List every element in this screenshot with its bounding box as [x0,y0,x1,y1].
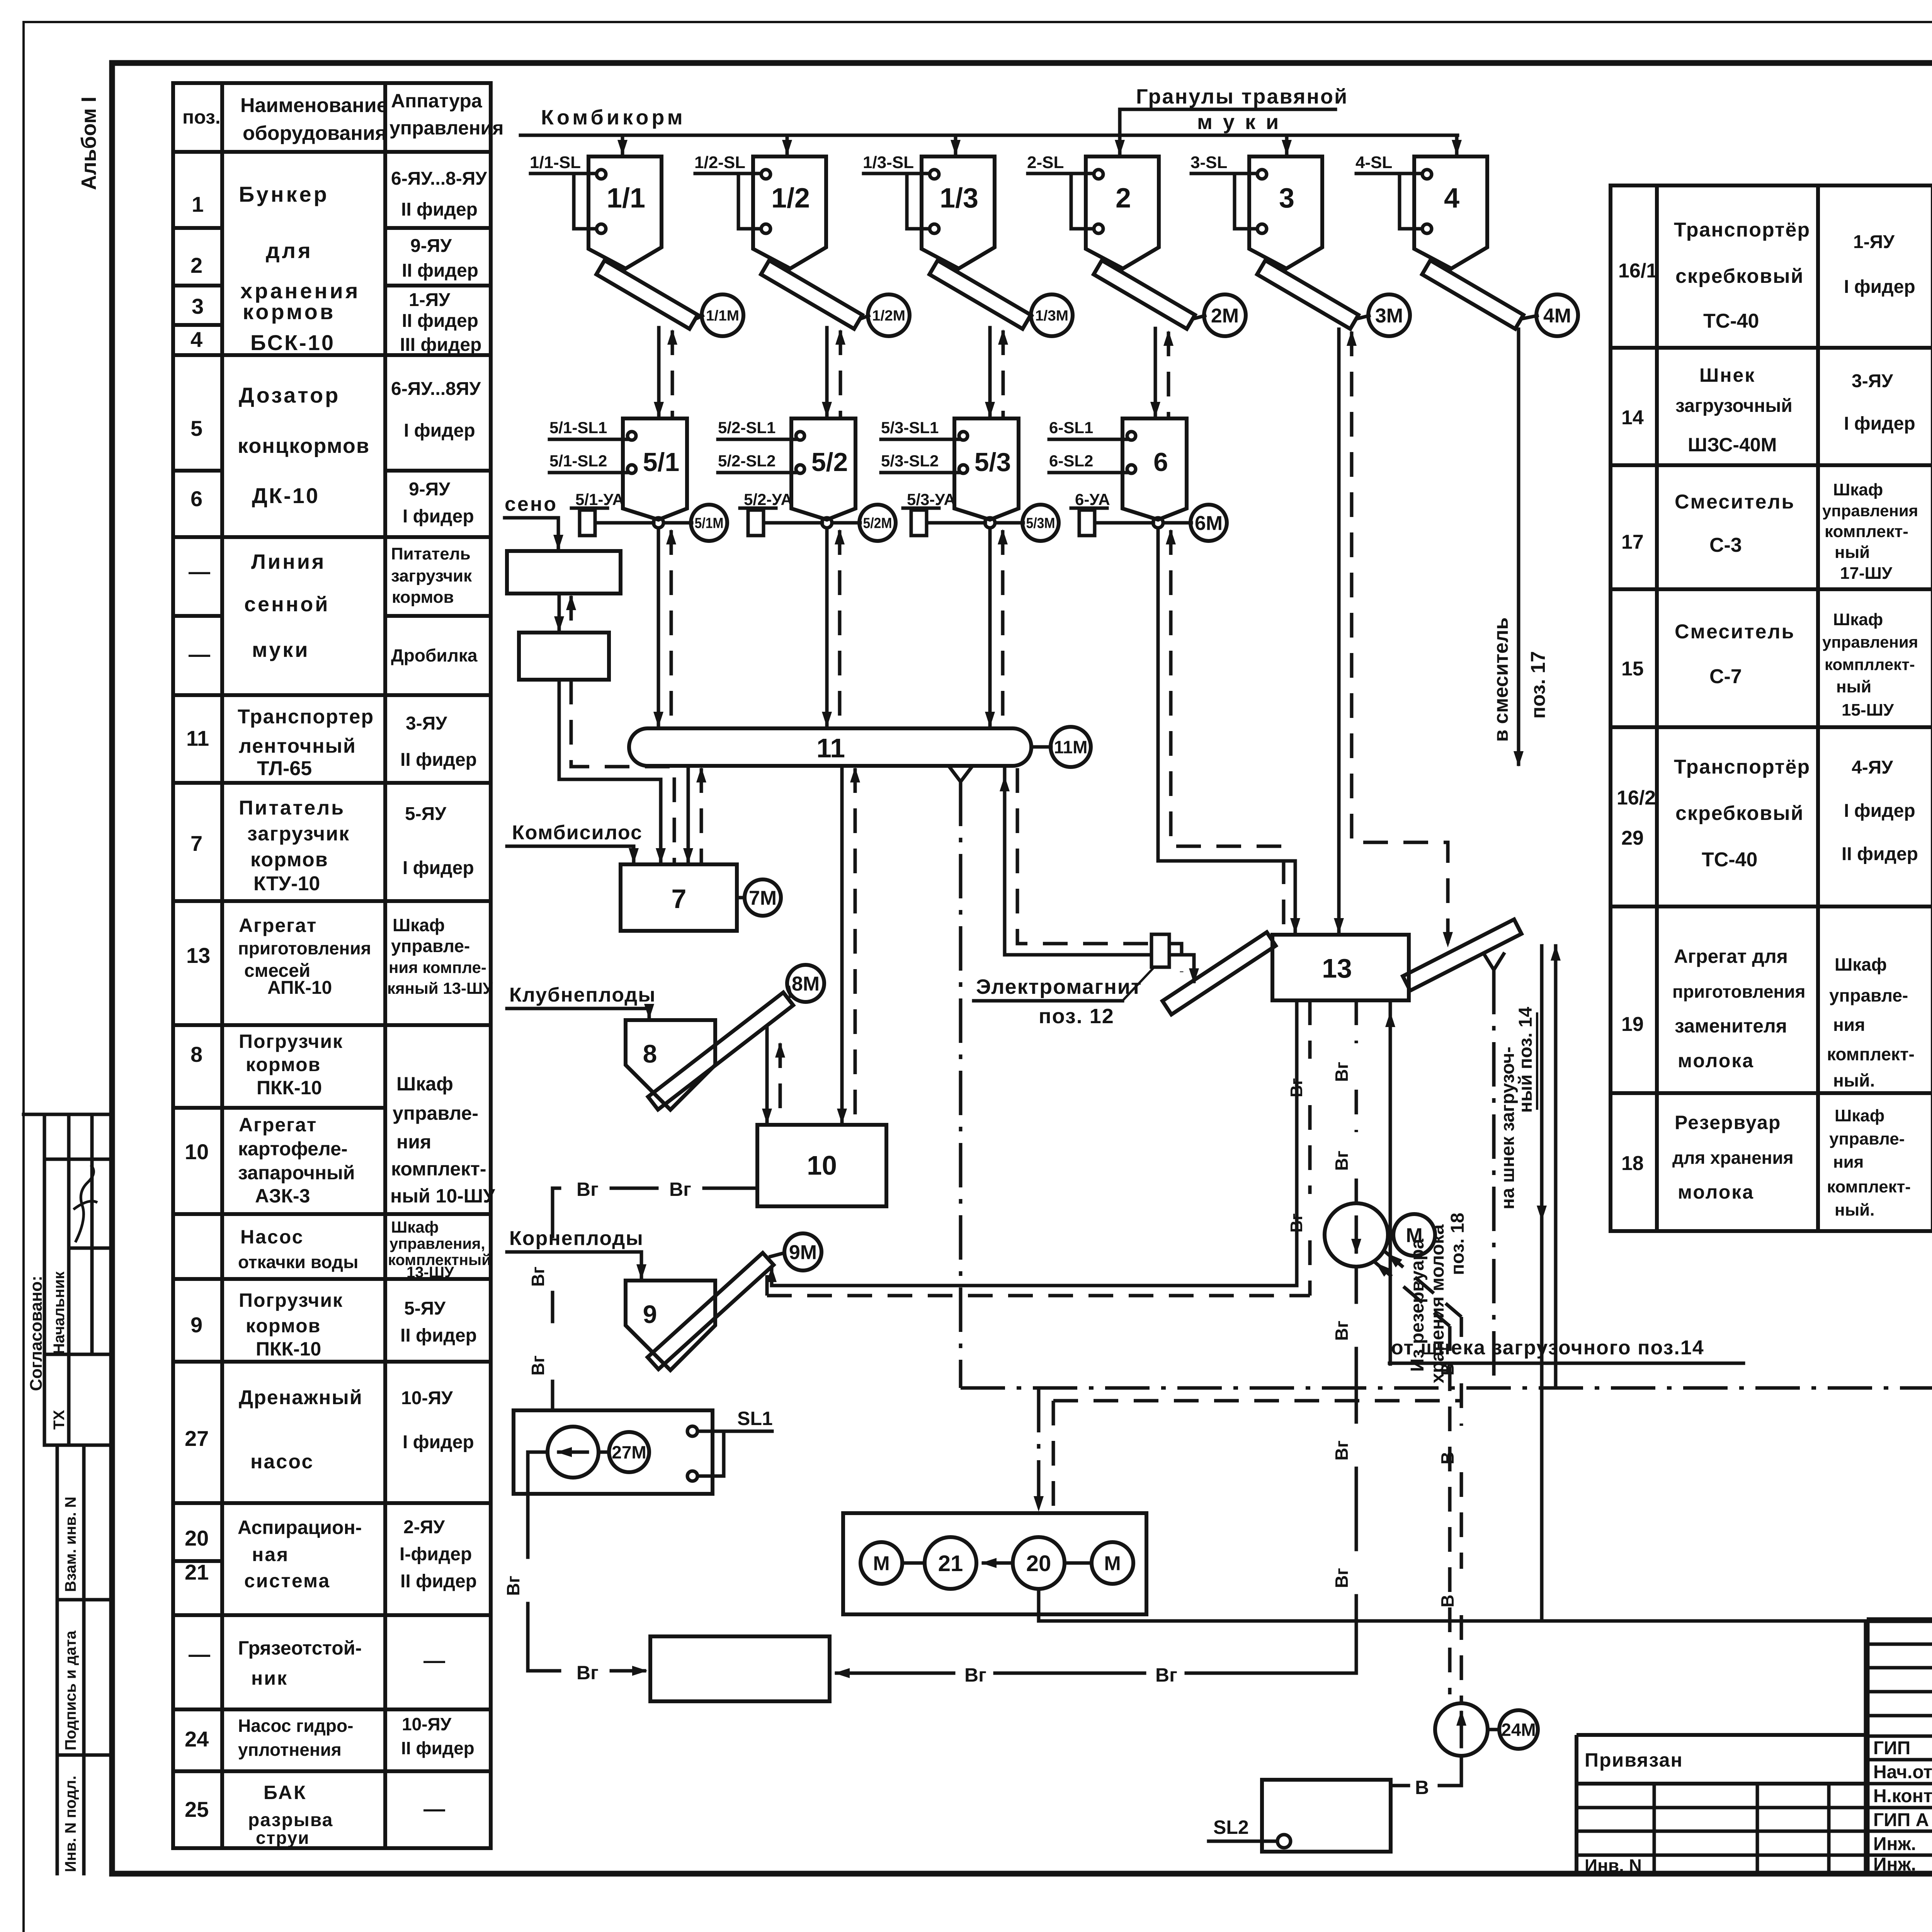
svg-text:5/1-SL1: 5/1-SL1 [549,418,607,437]
strip signature [73,1165,97,1242]
svg-text:Транспортёр: Транспортёр [1674,756,1810,778]
svg-text:5-ЯУ: 5-ЯУ [405,804,447,824]
svg-text:в смеситель: в смеситель [1490,617,1512,742]
svg-text:молока: молока [1678,1181,1754,1203]
svg-text:29: 29 [1621,827,1644,849]
svg-text:В: В [1437,1595,1458,1607]
svg-text:управления: управления [389,117,503,139]
АПК-13 bottom Вг dashed to pump [1355,1000,1358,1043]
svg-text:5/3: 5/3 [975,447,1011,477]
svg-text:11: 11 [186,726,209,750]
hopper 1/3 level sensors 1/3-SL [930,170,939,179]
motor 5/2M [832,521,860,525]
svg-text:14: 14 [1621,406,1644,429]
svg-text:комплект-: комплект- [1827,1044,1915,1064]
pump 27 left output [528,1451,548,1454]
svg-text:I фидер: I фидер [403,506,474,527]
СБ tank box SL2 [1262,1780,1391,1852]
svg-text:В: В [1415,1777,1429,1798]
hopper 1/2 bin [753,156,826,269]
hopper 4 level sensors 4-SL [1422,170,1432,179]
hopper 2 discharge conveyor [1094,260,1195,329]
svg-text:10-ЯУ: 10-ЯУ [402,1714,452,1734]
hopper 3 level sensors 3-SL [1257,170,1267,179]
flow line doser 6 to АПК-13 [1158,528,1295,932]
aspiration output line [1039,1589,1932,1621]
svg-text:25: 25 [185,1797,209,1821]
svg-text:17-ШУ: 17-ШУ [1840,564,1893,583]
doser 5/1 pivot [653,518,663,528]
svg-text:С-3: С-3 [1709,534,1742,556]
svg-text:15-ШУ: 15-ШУ [1842,701,1894,719]
svg-text:откачки воды: откачки воды [238,1252,358,1272]
return line hopper 3 dashed [1352,332,1448,946]
aspiration connectors [902,1561,925,1565]
svg-text:Шкаф: Шкаф [1835,1106,1884,1125]
svg-text:ГИП: ГИП [1873,1738,1910,1759]
svg-text:4: 4 [1444,183,1459,214]
svg-text:скребковый: скребковый [1675,265,1804,287]
hay feeder to crusher lines [558,594,561,630]
svg-text:Вг: Вг [964,1664,986,1686]
electromagnet 12 [1151,934,1169,967]
svg-text:Дренажный: Дренажный [239,1386,363,1409]
svg-text:5-ЯУ: 5-ЯУ [404,1298,446,1319]
equipment table header [173,150,491,154]
svg-text:Взам. инв. N: Взам. инв. N [62,1497,79,1592]
svg-text:3-ЯУ: 3-ЯУ [406,713,447,734]
svg-text:II фидер: II фидер [402,311,478,331]
flow lines doser 5/3 to conveyor 11 [988,528,992,726]
svg-text:16/1: 16/1 [1618,260,1657,282]
svg-text:Погрузчик: Погрузчик [239,1031,343,1052]
svg-text:III фидер: III фидер [400,335,481,355]
sump left feed [528,1669,560,1673]
svg-text:кормов: кормов [246,1315,321,1337]
svg-text:24: 24 [185,1727,209,1751]
svg-text:сено: сено [505,493,558,515]
svg-text:1/1-SL: 1/1-SL [530,153,581,172]
svg-text:С-7: С-7 [1709,665,1742,688]
svg-text:компллект-: компллект- [1825,655,1915,673]
motor 5/1M [663,521,692,525]
svg-text:комплект-: комплект- [391,1158,486,1180]
svg-text:Инв. N: Инв. N [1585,1855,1642,1876]
svg-text:ный.: ный. [1833,1070,1875,1090]
flow lines hopper 2 to doser 6 [1154,328,1157,416]
svg-text:21: 21 [185,1560,209,1584]
conveyor 11 discharge funnel [949,766,973,782]
svg-text:3: 3 [192,294,204,318]
svg-text:5/1-SL2: 5/1-SL2 [549,452,607,470]
svg-text:ный.: ный. [1835,1201,1874,1219]
svg-text:21: 21 [938,1551,963,1576]
svg-text:5/3M: 5/3M [1026,515,1055,532]
svg-text:5: 5 [190,416,202,440]
svg-text:—: — [189,642,210,666]
svg-text:6-УА: 6-УА [1075,490,1110,509]
line with up arrow near funnel [1554,946,1558,1388]
svg-text:ТЛ-65: ТЛ-65 [257,757,312,780]
svg-text:6-ЯУ...8-ЯУ: 6-ЯУ...8-ЯУ [391,168,487,189]
svg-text:Транспортёр: Транспортёр [1674,219,1810,241]
svg-text:—: — [423,1796,445,1821]
doser 6 sensor 6-SL1 [1127,432,1136,440]
title block staff rows [1867,1735,1932,1738]
svg-text:Смеситель: Смеситель [1675,621,1795,643]
loader 9 conveyor [648,1253,774,1369]
hopper 1/1 discharge conveyor [596,260,697,329]
svg-text:I фидер: I фидер [403,1432,474,1452]
svg-text:—: — [189,1642,210,1666]
hay feeder box [507,551,621,594]
motor 3M [1357,316,1369,319]
svg-text:Резервуар: Резервуар [1675,1112,1781,1133]
equipment table row lines [173,353,491,357]
motor 9M [770,1253,782,1257]
svg-text:5/2M: 5/2M [863,515,892,532]
hopper 1/1 bin [588,156,662,269]
svg-text:ДК-10: ДК-10 [252,483,320,508]
svg-text:Вг: Вг [528,1355,548,1376]
doser 5/1 sensor 5/1-SL1 [628,432,636,440]
svg-text:M: M [1104,1553,1121,1575]
doser 5/3 bin [954,418,1019,520]
outlet funnel [1483,952,1505,970]
svg-text:м у к и: м у к и [1197,111,1281,134]
root pile 9 [626,1281,715,1370]
svg-text:управления: управления [1822,502,1918,520]
return line doser 6 dashed [1171,530,1284,933]
svg-text:2-ЯУ: 2-ЯУ [403,1517,445,1537]
svg-text:4: 4 [190,327,202,352]
crusher box [519,633,609,680]
aspiration fan 21 [925,1537,976,1589]
svg-text:Насос: Насос [240,1226,304,1248]
svg-text:3M: 3M [1375,305,1403,327]
svg-text:1/1M: 1/1M [706,308,739,324]
svg-text:11: 11 [816,733,845,763]
АПК-10 outlet conveyor [1403,919,1521,990]
svg-text:БАК: БАК [264,1782,307,1803]
dash-dot from funnel down [1492,970,1496,1388]
svg-text:Вг: Вг [1332,1151,1352,1171]
flow lines hopper 1/1 to doser 5/1 [657,328,661,416]
flow lines doser 5/2 to conveyor 11 [825,528,829,726]
svg-text:1/3-SL: 1/3-SL [863,153,914,172]
filing strip grid [24,1113,112,1116]
svg-text:КТУ-10: КТУ-10 [253,872,320,895]
milk return line Из резервуара [1389,1002,1392,1364]
svg-text:5/2: 5/2 [811,447,848,477]
svg-text:управле-: управле- [1829,1129,1905,1148]
svg-text:8: 8 [643,1039,657,1068]
svg-text:ПКК-10: ПКК-10 [256,1338,321,1360]
svg-text:II фидер: II фидер [400,1325,477,1346]
svg-text:ник: ник [251,1667,288,1689]
svg-text:от шнека загрузочного поз.14: от шнека загрузочного поз.14 [1391,1337,1704,1359]
hopper 3 bin [1249,156,1322,269]
svg-text:Комбисилос: Комбисилос [512,821,643,844]
hopper 2 feed arrow [1118,135,1122,154]
svg-text:4-ЯУ: 4-ЯУ [1852,757,1893,778]
doser 5/2 bin [791,418,855,520]
loader 8 conveyor [648,992,793,1109]
svg-text:17: 17 [1621,531,1644,553]
pump 13 output [1325,1203,1388,1267]
hopper 3 discharge conveyor [1257,260,1358,329]
svg-text:6: 6 [190,486,202,511]
hopper 4 bin [1414,156,1487,269]
svg-text:управле-: управле- [391,936,470,956]
svg-text:1/3: 1/3 [940,183,978,214]
svg-text:кяный 13-ШУ: кяный 13-ШУ [387,979,493,997]
svg-text:приготовления: приготовления [1672,981,1805,1002]
svg-text:ПКК-10: ПКК-10 [257,1077,322,1099]
conveyor 11 to КТУ-7 lines [687,766,690,862]
svg-text:II фидер: II фидер [400,1571,477,1592]
aspiration motor M right [1092,1542,1133,1584]
svg-text:11M: 11M [1054,737,1088,757]
doser 6 pivot [1153,518,1163,528]
svg-text:Вг: Вг [669,1179,691,1200]
belt conveyor 11 [629,728,1031,766]
flow lines doser 5/1 to conveyor 11 [657,528,660,726]
hopper 4 feed arrow [1455,135,1459,154]
svg-text:для хранения: для хранения [1672,1148,1794,1168]
svg-text:6-SL2: 6-SL2 [1049,452,1093,470]
svg-text:Н.контр.: Н.контр. [1873,1786,1932,1806]
svg-text:3: 3 [1279,183,1294,214]
crusher to КТУ-7 lines [559,680,661,862]
svg-text:II фидер: II фидер [400,750,477,770]
svg-text:—: — [189,559,210,583]
svg-text:8M: 8M [792,973,820,995]
svg-text:I фидер: I фидер [1844,277,1915,297]
svg-text:1/2-SL: 1/2-SL [694,153,745,172]
svg-text:ШЗС-40М: ШЗС-40М [1688,434,1777,456]
svg-text:Шкаф: Шкаф [393,915,445,935]
flow lines hopper 1/3 to doser 5/3 [988,328,992,416]
svg-text:оборудования: оборудования [243,122,387,145]
svg-text:Вг: Вг [528,1267,548,1287]
hopper 1/1 level sensors 1/1-SL [597,170,606,179]
svg-text:4M: 4M [1543,305,1571,327]
svg-text:8: 8 [190,1042,202,1066]
svg-text:II фидер: II фидер [402,260,478,281]
aspiration unit box 20 21 [843,1513,1146,1614]
pump 24 bottom line [1460,1756,1463,1786]
motor 8M [789,988,791,996]
svg-text:II фидер: II фидер [1842,844,1918,864]
sump box [650,1636,830,1701]
svg-text:6-ЯУ...8ЯУ: 6-ЯУ...8ЯУ [391,379,481,399]
svg-text:поз. 12: поз. 12 [1039,1005,1114,1028]
svg-text:молока: молока [1678,1050,1754,1071]
svg-text:Вг: Вг [577,1662,599,1684]
svg-text:Комбикорм: Комбикорм [541,106,686,129]
loader 9 output lines [770,1268,774,1286]
equipment table frame [173,83,491,1848]
hopper 1/2 feed arrow [786,135,789,154]
svg-text:управле-: управле- [1829,985,1908,1005]
doser 5/1 bin [623,418,687,520]
title block revision rows [1867,1643,1932,1646]
svg-text:3-SL: 3-SL [1190,153,1227,172]
drainage pump box 27 [514,1410,713,1494]
svg-text:Погрузчик: Погрузчик [239,1289,343,1311]
svg-text:сенной: сенной [244,593,330,616]
svg-text:Питатель: Питатель [239,797,345,819]
svg-text:Начальник: Начальник [51,1271,68,1354]
svg-text:5/1-УА: 5/1-УА [575,490,624,509]
svg-text:загрузчик: загрузчик [247,823,350,845]
title block extension Привязан [1577,1733,1867,1737]
svg-text:20: 20 [1026,1551,1051,1576]
svg-text:для: для [266,238,313,263]
svg-text:ния: ния [1833,1015,1865,1035]
svg-text:Шнек: Шнек [1699,364,1755,386]
line conveyor 11 to electromagnet dashed [1017,768,1151,944]
svg-text:Дробилка: Дробилка [391,645,478,665]
svg-text:картофеле-: картофеле- [238,1138,348,1160]
svg-text:Насос гидро-: Насос гидро- [238,1716,353,1736]
pump down Вг line to sump [1355,1267,1358,1302]
svg-text:I фидер: I фидер [1844,801,1915,821]
root pile 8 [626,1020,715,1110]
svg-text:Подпись и дата: Подпись и дата [62,1630,79,1750]
doser 5/3 sensor 5/3-SL2 [959,465,968,473]
Вг vertical to drainage pump [551,1188,554,1236]
svg-text:насос: насос [250,1451,314,1473]
svg-text:ТС-40: ТС-40 [1703,310,1759,332]
svg-text:Клубнеплоды: Клубнеплоды [509,984,656,1006]
svg-text:Корнеплоды: Корнеплоды [509,1227,644,1250]
svg-text:Наименование: Наименование [240,94,388,117]
electromagnet to conveyor lines [1169,955,1194,981]
svg-text:ния: ния [396,1131,431,1153]
svg-text:Согласовано:: Согласовано: [27,1276,46,1391]
svg-text:ный: ный [1835,543,1870,562]
svg-text:БСК-10: БСК-10 [250,330,335,355]
pump motor M [1388,1233,1393,1237]
svg-text:M: M [873,1553,889,1575]
sump feed right horizontal [1186,1672,1356,1675]
doser 5/3 pivot [985,518,995,528]
svg-text:19: 19 [1621,1013,1644,1036]
svg-text:13: 13 [186,943,210,968]
svg-text:Шкаф: Шкаф [396,1073,453,1095]
svg-text:запарочный: запарочный [238,1162,355,1184]
svg-text:Вг: Вг [1287,1213,1306,1233]
svg-text:I фидер: I фидер [403,858,474,878]
svg-text:загрузочный: загрузочный [1675,396,1793,416]
svg-text:9M: 9M [789,1242,817,1264]
hopper 1/1 feed arrow [621,135,624,154]
svg-text:5/2-УА: 5/2-УА [744,490,793,509]
doser 6 bin [1122,418,1187,520]
pump to В line slanted dashed [1373,1260,1450,1326]
pump 24M [1435,1703,1488,1756]
conveyor 11 to АЗК-10 lines [840,766,844,1122]
svg-text:1/1: 1/1 [607,183,645,214]
svg-text:загрузчик: загрузчик [391,566,472,585]
motor 1/3M [1029,316,1032,319]
svg-text:2-SL: 2-SL [1027,153,1064,172]
svg-text:кормов: кормов [392,588,454,607]
hopper 2 bin [1086,156,1159,269]
svg-text:скребковый: скребковый [1675,802,1804,825]
svg-text:5/1M: 5/1M [695,515,724,532]
doser 5/2 sensor 5/2-SL1 [796,432,804,440]
svg-text:Вг: Вг [1332,1321,1352,1341]
svg-text:1/2: 1/2 [771,183,810,214]
svg-text:Бункер: Бункер [239,182,329,206]
svg-text:ТС-40: ТС-40 [1702,849,1757,871]
svg-text:I-фидер: I-фидер [400,1544,472,1565]
svg-text:1/2M: 1/2M [872,308,905,324]
motor 27M [599,1451,609,1454]
svg-text:муки: муки [252,638,310,662]
svg-text:Агрегат для: Агрегат для [1674,946,1788,967]
svg-text:поз. 18: поз. 18 [1447,1213,1468,1275]
svg-text:5/2-SL1: 5/2-SL1 [718,418,776,437]
svg-text:27M: 27M [612,1442,646,1463]
dash-dot from conveyor 11 funnel [959,782,963,1388]
svg-text:ТХ: ТХ [51,1410,68,1430]
svg-text:7: 7 [190,831,202,855]
dash-dot line от шнека [961,1386,1932,1390]
motor 24M [1488,1728,1498,1731]
svg-text:Вг: Вг [503,1576,523,1596]
svg-text:6: 6 [1153,447,1168,477]
hopper 2 level sensors 2-SL [1094,170,1103,179]
hopper 1/2 level sensors 1/2-SL [761,170,770,179]
svg-text:SL1: SL1 [737,1408,773,1429]
svg-text:Вг: Вг [1287,1078,1306,1097]
svg-text:заменителя: заменителя [1675,1015,1787,1037]
box 27 sensors SL1 [687,1426,697,1436]
svg-text:2: 2 [1116,183,1131,214]
hopper 3 feed arrow [1285,135,1289,154]
motor 1/2M [861,316,869,319]
svg-text:Нач.отд: Нач.отд [1873,1762,1932,1782]
motor 7M [737,896,745,900]
svg-text:9: 9 [190,1313,202,1337]
svg-text:поз. 17: поз. 17 [1527,651,1549,719]
svg-text:Инв. N подл.: Инв. N подл. [62,1776,79,1872]
svg-text:16/2: 16/2 [1617,787,1656,809]
svg-text:9-ЯУ: 9-ЯУ [409,479,451,500]
svg-text:6-SL1: 6-SL1 [1049,418,1093,437]
svg-text:Грязеотстой-: Грязеотстой- [238,1637,362,1659]
svg-text:Вг: Вг [1332,1062,1352,1082]
title block extension grid [1577,1806,1867,1810]
svg-text:комплект-: комплект- [1827,1177,1911,1196]
hopper 4 discharge conveyor [1422,260,1523,329]
title block main frame [1867,1620,1932,1874]
svg-text:10: 10 [185,1139,209,1164]
svg-text:АЗК-3: АЗК-3 [255,1185,310,1207]
Вг feed line to АЗК-10 [553,1187,560,1190]
svg-text:Электромагнит: Электромагнит [976,975,1142,998]
svg-text:13-ШУ: 13-ШУ [406,1264,454,1281]
svg-text:управле-: управле- [393,1102,478,1124]
doser 6 sensor 6-SL2 [1127,465,1136,473]
motor 11M [1031,745,1051,749]
svg-text:Смеситель: Смеситель [1675,491,1795,513]
svg-text:5/3-SL2: 5/3-SL2 [881,452,939,470]
